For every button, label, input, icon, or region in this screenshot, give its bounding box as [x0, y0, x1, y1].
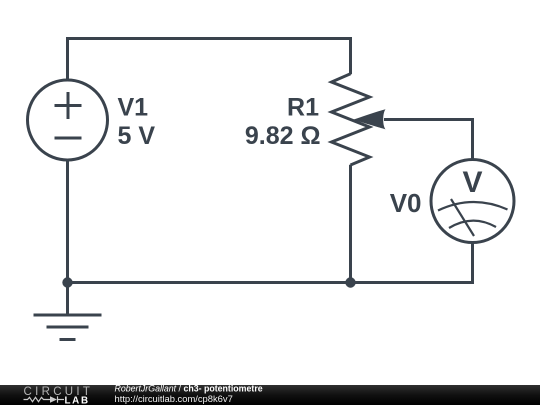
wire bottom net	[68, 281, 475, 284]
resistor R1 (potentiometer body)	[332, 74, 370, 165]
svg-text:LAB: LAB	[65, 396, 90, 405]
wire ground stem	[66, 283, 69, 316]
wire voltmeter bottom lead	[471, 243, 474, 285]
footer logo resistor-diode glyph	[24, 396, 65, 402]
svg-text:5 V: 5 V	[118, 122, 156, 150]
svg-text:9.82 Ω: 9.82 Ω	[245, 122, 321, 150]
svg-text:http://circuitlab.com/cp8k6v7: http://circuitlab.com/cp8k6v7	[115, 393, 233, 404]
svg-text:V0: V0	[390, 188, 422, 218]
ground	[34, 315, 102, 340]
wire V1 top to R1 top	[68, 39, 351, 81]
wire V1 bottom lead	[66, 160, 69, 283]
wiper arrow of R1	[353, 109, 386, 129]
node junction at V1 bottom	[62, 277, 72, 287]
node junction at R1 bottom	[345, 277, 355, 287]
voltmeter V0	[431, 160, 514, 243]
footer bar	[0, 385, 540, 405]
voltage source V1	[28, 80, 108, 160]
wire R1 bottom lead	[349, 165, 352, 283]
svg-text:RobertJrGallant / ch3- potenti: RobertJrGallant / ch3- potentiometre	[115, 384, 263, 394]
svg-text:V: V	[462, 166, 482, 199]
svg-text:V1: V1	[118, 94, 149, 122]
svg-text:R1: R1	[287, 94, 319, 122]
wire R1 wiper to voltmeter top	[384, 120, 473, 160]
